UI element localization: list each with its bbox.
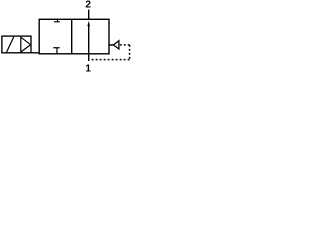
pilot triangle inside solenoid box bbox=[21, 37, 31, 52]
pilot line dashed (horizontal to port 1) bbox=[89, 59, 129, 61]
solenoid coil slash bbox=[6, 37, 14, 53]
pilot line dashed (vertical right side) bbox=[129, 45, 131, 60]
wire: solenoid box to valve body bbox=[31, 52, 39, 54]
wire: port 2 line bbox=[88, 10, 90, 20]
wire: pilot stub from valve body bbox=[109, 44, 113, 46]
flow path arrowhead bbox=[87, 21, 90, 26]
valve position divider bbox=[71, 19, 73, 54]
svg-text:2: 2 bbox=[85, 0, 91, 11]
svg-text:1: 1 bbox=[85, 64, 91, 75]
blocked port (top, closed position) bbox=[54, 19, 60, 22]
blocked port (bottom, closed position) bbox=[53, 48, 59, 54]
pilot line dashed (horizontal from triangle) bbox=[120, 44, 131, 46]
valve body outline bbox=[39, 19, 109, 54]
flow path arrow shaft (open position) bbox=[88, 24, 90, 54]
solenoid actuator box S1 bbox=[2, 36, 31, 53]
wire: port 1 line bbox=[88, 54, 90, 61]
pilot return triangle bbox=[113, 41, 119, 49]
